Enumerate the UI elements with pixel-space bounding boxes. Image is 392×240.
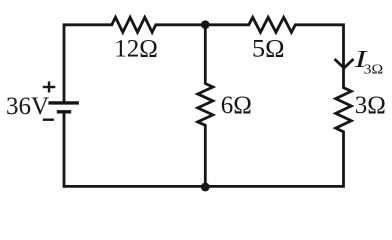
svg-text:36V: 36V [6,93,49,120]
svg-text:3Ω: 3Ω [364,63,384,78]
svg-text:12Ω: 12Ω [114,36,158,63]
svg-text:6Ω: 6Ω [221,92,252,119]
svg-text:5Ω: 5Ω [252,36,285,63]
svg-text:3Ω: 3Ω [355,92,386,119]
